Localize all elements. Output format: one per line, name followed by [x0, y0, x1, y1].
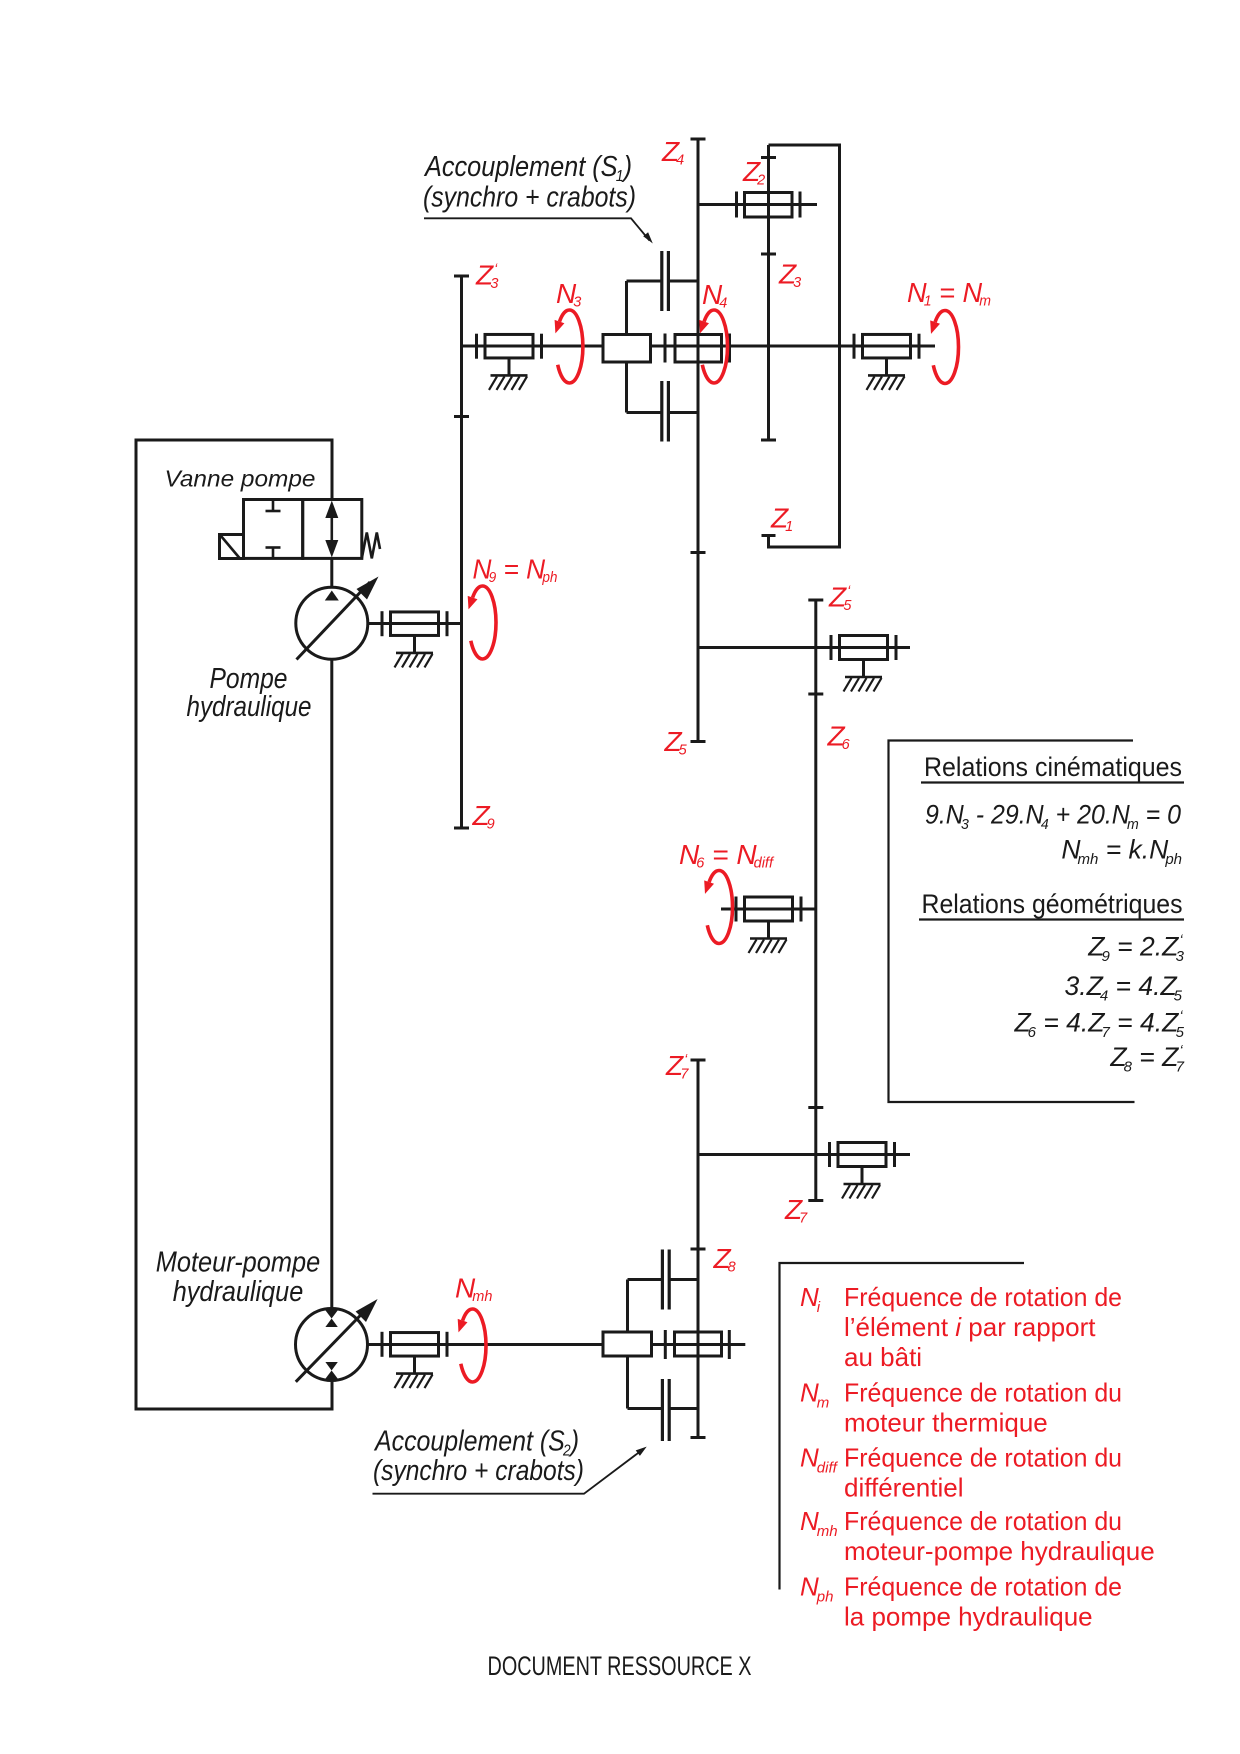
svg-text:Accouplement (S1): Accouplement (S1): [423, 151, 632, 185]
svg-text:3.Z4 = 4.Z5: 3.Z4 = 4.Z5: [1065, 971, 1183, 1005]
svg-text:au bâti: au bâti: [844, 1342, 922, 1372]
svg-text:N9 = Nph: N9 = Nph: [473, 554, 558, 587]
svg-text:l’élément i par rapport: l’élément i par rapport: [844, 1312, 1096, 1342]
svg-text:Z‘5: Z‘5: [828, 582, 852, 615]
svg-text:Fréquence de rotation de: Fréquence de rotation de: [844, 1282, 1122, 1312]
svg-text:hydraulique: hydraulique: [173, 1276, 304, 1308]
svg-text:Ni: Ni: [800, 1282, 821, 1316]
svg-text:DOCUMENT RESSOURCE X: DOCUMENT RESSOURCE X: [488, 1651, 752, 1681]
svg-text:Relations géométriques: Relations géométriques: [922, 889, 1183, 919]
svg-text:Z‘7: Z‘7: [665, 1050, 689, 1083]
svg-text:Fréquence de rotation du: Fréquence de rotation du: [844, 1443, 1122, 1473]
svg-text:(synchro + crabots): (synchro + crabots): [373, 1455, 584, 1487]
svg-text:Z9 = 2.Z‘3: Z9 = 2.Z‘3: [1087, 932, 1184, 966]
svg-text:Z8 = Z‘7: Z8 = Z‘7: [1109, 1042, 1184, 1076]
svg-text:Vanne pompe: Vanne pompe: [165, 466, 316, 492]
svg-text:9.N3 - 29.N4 + 20.Nm = 0: 9.N3 - 29.N4 + 20.Nm = 0: [925, 800, 1181, 834]
svg-text:Fréquence de rotation du: Fréquence de rotation du: [844, 1378, 1122, 1408]
svg-text:Z6 = 4.Z7 = 4.Z‘5: Z6 = 4.Z7 = 4.Z‘5: [1013, 1008, 1184, 1042]
svg-text:Nmh = k.Nph: Nmh = k.Nph: [1061, 835, 1182, 869]
svg-text:la pompe hydraulique: la pompe hydraulique: [844, 1602, 1093, 1632]
svg-text:N1 = Nm: N1 = Nm: [907, 277, 991, 310]
svg-text:moteur-pompe hydraulique: moteur-pompe hydraulique: [844, 1536, 1155, 1566]
svg-text:Relations cinématiques: Relations cinématiques: [924, 752, 1182, 782]
svg-text:Fréquence de rotation du: Fréquence de rotation du: [844, 1506, 1122, 1536]
svg-text:Z‘3: Z‘3: [475, 260, 498, 293]
svg-text:différentiel: différentiel: [844, 1473, 964, 1503]
svg-text:(synchro + crabots): (synchro + crabots): [423, 182, 636, 214]
svg-text:Moteur-pompe: Moteur-pompe: [156, 1247, 321, 1279]
svg-text:hydraulique: hydraulique: [187, 691, 312, 723]
svg-text:Fréquence de rotation de: Fréquence de rotation de: [844, 1572, 1122, 1602]
svg-text:moteur thermique: moteur thermique: [844, 1408, 1048, 1438]
